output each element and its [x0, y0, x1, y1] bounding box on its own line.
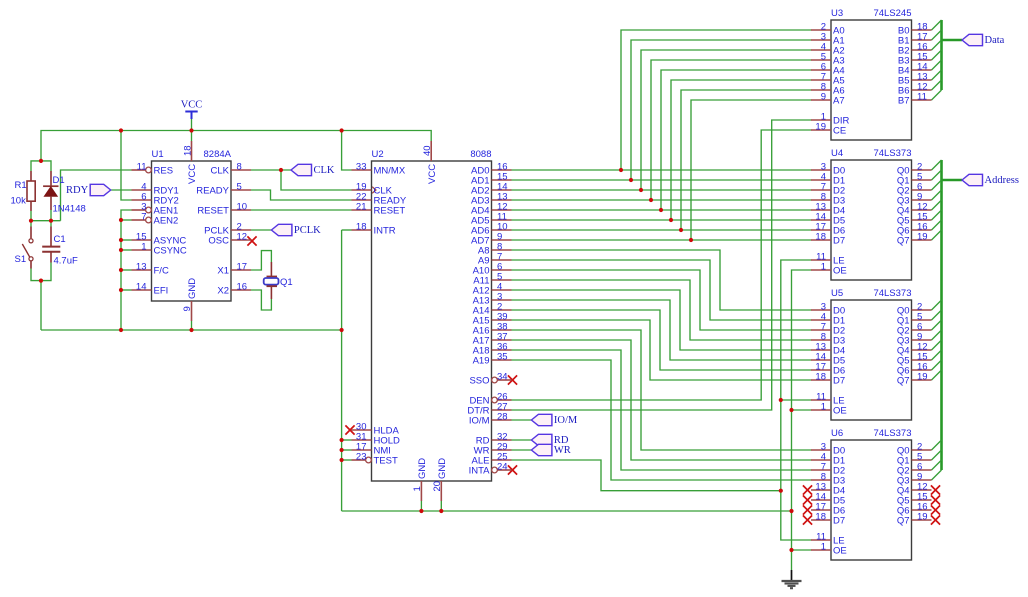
- svg-text:19: 19: [917, 372, 928, 383]
- wire U6.OE stub: [792, 549, 812, 551]
- svg-text:9: 9: [182, 306, 193, 311]
- wire GND stub to U2.HOLD: [342, 439, 352, 441]
- wire U5.Q1 bus entry: [932, 310, 942, 320]
- wire U5.Q3 bus entry: [932, 330, 942, 340]
- svg-text:VCC: VCC: [187, 164, 198, 184]
- U4 pin 4 D1: [811, 172, 845, 187]
- U4 pin 1 OE: [811, 262, 847, 277]
- svg-text:74LS373: 74LS373: [873, 288, 911, 299]
- svg-text:A19: A19: [473, 356, 490, 367]
- U2 pin 5 A11: [473, 272, 511, 287]
- wire U4.Q5 bus entry: [932, 210, 942, 220]
- svg-text:Q7: Q7: [897, 516, 910, 527]
- wire GND stub to U2.TEST: [342, 459, 352, 461]
- wire VCC to U1.RDY2: [121, 131, 132, 201]
- wire OE vertical (GND): [792, 270, 812, 570]
- U1 pin 1 CSYNC: [132, 242, 187, 257]
- svg-text:5: 5: [237, 182, 242, 193]
- U5 pin 17 D6: [811, 362, 845, 377]
- U2 pin 2 A14: [473, 302, 512, 317]
- U5 pin 16 Q6: [897, 362, 932, 377]
- U1 pin 11 RES: [132, 162, 174, 177]
- power flag VCC: [181, 100, 203, 120]
- svg-text:CSYNC: CSYNC: [154, 246, 187, 257]
- svg-text:D7: D7: [833, 236, 845, 247]
- U1 pin 8 CLK: [211, 162, 251, 177]
- U4 pin 14 D5: [811, 212, 845, 227]
- svg-text:18: 18: [815, 512, 826, 523]
- U2 pin 21 RESET: [352, 202, 406, 217]
- wire U5.Q5 bus entry: [932, 350, 942, 360]
- wire A14: U2 to U5.D6: [512, 310, 812, 370]
- wire AD0: U2 to U4.D0: [512, 169, 812, 171]
- wire DEN to U3.CE: [512, 130, 812, 400]
- wire U5.Q6 bus entry: [932, 360, 942, 370]
- wire U5.LE stub: [781, 399, 812, 401]
- junction AD4 branch: [659, 208, 663, 212]
- U3 pin 8 A6: [811, 82, 845, 97]
- svg-text:INTA: INTA: [469, 466, 491, 477]
- wire U2.GND20 stub: [440, 501, 442, 511]
- U5 pin 1 OE: [811, 402, 847, 417]
- U6 pin 18 D7: [811, 512, 845, 527]
- svg-text:Q7: Q7: [897, 236, 910, 247]
- wire U1.GND stub: [191, 321, 193, 330]
- U3 pin 11 B7: [898, 92, 932, 107]
- svg-text:35: 35: [497, 352, 508, 363]
- junction node D1/C1: [49, 219, 53, 223]
- wire GND stub to U2.NMI: [342, 449, 352, 451]
- junction ALE / U5.LE: [779, 398, 783, 402]
- U2 pin 7 A9: [478, 252, 512, 267]
- svg-text:CLK: CLK: [314, 165, 335, 176]
- wire AD1 branch to U3.A1: [631, 40, 812, 180]
- U2 pin 29 WR: [474, 442, 512, 457]
- svg-text:D1: D1: [53, 175, 65, 186]
- wire C1 top stub: [50, 221, 52, 227]
- wire GND vertical U2 side: [341, 230, 343, 511]
- U2 pin 32 RD: [476, 432, 512, 447]
- no-connect X U6.Q5 NC: [931, 495, 940, 504]
- svg-text:1: 1: [141, 242, 146, 253]
- svg-text:11: 11: [917, 92, 927, 103]
- svg-text:R1: R1: [15, 180, 27, 191]
- U6 pin 5 Q1: [897, 452, 932, 467]
- U5 pin 4 D1: [811, 312, 845, 327]
- U6 pin 4 D1: [811, 452, 845, 467]
- svg-text:Q1: Q1: [280, 277, 293, 288]
- wire B2 bus entry: [932, 40, 942, 50]
- U5 pin 5 Q1: [897, 312, 932, 327]
- U1 pin 7 AEN2: [132, 212, 179, 227]
- svg-text:OE: OE: [833, 266, 847, 277]
- U1 pin 17 X1: [217, 262, 251, 277]
- U4 pin 19 Q7: [897, 232, 932, 247]
- no-connect X U2.HLDA: [345, 425, 354, 434]
- wire U6.Q0 bus entry: [932, 440, 942, 450]
- junction GND / CSYNC: [119, 248, 123, 252]
- junction AD0 branch: [619, 168, 623, 172]
- svg-text:74LS373: 74LS373: [873, 428, 911, 439]
- junction GND / U2 pin20: [439, 509, 443, 513]
- junction AD6 branch: [679, 228, 683, 232]
- junction GND / U6.OE: [789, 548, 793, 552]
- wire U4.Q3 bus entry: [932, 190, 942, 200]
- junction AD2 branch: [639, 188, 643, 192]
- svg-text:VCC: VCC: [181, 100, 203, 111]
- svg-text:12: 12: [237, 232, 248, 243]
- U6 pin 12 Q4: [897, 482, 932, 497]
- svg-text:1: 1: [821, 542, 826, 553]
- junction GND vertical / GND rail: [119, 328, 123, 332]
- U3 pin 6 A4: [811, 62, 845, 77]
- svg-text:OSC: OSC: [208, 236, 229, 247]
- svg-text:S1: S1: [15, 254, 27, 265]
- resistor R1: [27, 171, 35, 211]
- svg-text:40: 40: [422, 145, 433, 156]
- U4 pin 12 Q4: [897, 202, 932, 217]
- svg-text:10k: 10k: [11, 196, 27, 207]
- svg-text:READY: READY: [196, 186, 229, 197]
- U6 pin 17 D6: [811, 502, 845, 517]
- svg-text:U6: U6: [831, 428, 843, 439]
- no-connect X U2.INTA: [508, 465, 517, 474]
- IC U6 74LS373: [29, 128, 940, 560]
- U3 pin 7 A5: [811, 72, 845, 87]
- wire IO/M to flag: [512, 419, 532, 421]
- U4 pin 5 Q1: [897, 172, 932, 187]
- svg-text:1: 1: [412, 486, 423, 491]
- U2 pin 37 A17: [473, 332, 512, 347]
- U3 pin 12 B6: [898, 82, 932, 97]
- U1 pin 13 F/C: [132, 262, 169, 277]
- wire U5.Q0 bus entry: [932, 300, 942, 310]
- svg-text:D7: D7: [833, 516, 845, 527]
- wire U5.Q4 bus entry: [932, 340, 942, 350]
- U2 pin 8 A8: [478, 242, 512, 257]
- svg-text:CLK: CLK: [211, 166, 230, 177]
- U4 pin 2 Q0: [897, 162, 932, 177]
- wire U4.Q7 bus entry: [932, 230, 942, 240]
- U1 pin 16 X2: [217, 282, 251, 297]
- U2 pin 12 AD4: [471, 202, 511, 217]
- svg-text:B7: B7: [898, 96, 910, 107]
- junction GND / AEN2: [119, 218, 123, 222]
- U4 pin 16 Q6: [897, 222, 932, 237]
- junction GND / U2.HOLD: [340, 438, 344, 442]
- U3 pin 16 B2: [898, 42, 932, 57]
- svg-text:U3: U3: [831, 8, 843, 19]
- U6 pin 8 D3: [811, 472, 845, 487]
- wire AD1: U2 to U4.D1: [512, 179, 812, 181]
- U5 pin 11 LE: [811, 392, 845, 407]
- U2 pin 16 AD0: [471, 162, 511, 177]
- U2 pin 25 ALE: [472, 452, 512, 467]
- svg-text:18: 18: [815, 232, 826, 243]
- wire AD7 branch to U3.A7: [691, 100, 812, 240]
- wire GND rail: [41, 329, 342, 331]
- U5 pin 13 D4: [811, 342, 845, 357]
- U2 pin 28 IO/M: [469, 412, 512, 427]
- wire AD6: U2 to U4.D6: [512, 229, 812, 231]
- wire GND stub to U1.EFI: [121, 289, 132, 291]
- U4 pin 3 D0: [811, 162, 845, 177]
- svg-text:23: 23: [356, 452, 367, 463]
- svg-text:INTR: INTR: [374, 226, 396, 237]
- U4 pin 8 D3: [811, 192, 845, 207]
- svg-text:OE: OE: [833, 406, 847, 417]
- U3 pin 4 A2: [811, 42, 845, 57]
- U3 pin 19 CE: [811, 122, 846, 137]
- svg-text:D7: D7: [833, 376, 845, 387]
- svg-text:IO/M: IO/M: [554, 415, 578, 426]
- svg-text:EFI: EFI: [154, 286, 169, 297]
- U1 pin 5 READY: [196, 182, 251, 197]
- U5 pin 15 Q5: [897, 352, 932, 367]
- svg-text:20: 20: [432, 481, 443, 492]
- wire CLK to U2.CLK: [281, 170, 352, 190]
- U5 pin 9 Q3: [897, 332, 932, 347]
- diode D1 1N4148: [43, 171, 58, 210]
- U2 pin 14 AD2: [471, 182, 511, 197]
- svg-text:RES: RES: [154, 166, 174, 177]
- junction GND / U2 pin1: [419, 509, 423, 513]
- junction VCC rail / R1-D1 branch: [39, 159, 43, 163]
- no-connect X U6.D6 NC: [803, 505, 812, 514]
- U2 pin 6 A10: [473, 262, 512, 277]
- U3 pin 3 A1: [811, 32, 845, 47]
- svg-text:F/C: F/C: [154, 266, 169, 277]
- wire A16: U2 to U6.D0: [512, 330, 812, 450]
- junction GND / U2.TEST: [340, 458, 344, 462]
- U4 pin 13 D4: [811, 202, 845, 217]
- svg-text:7: 7: [141, 212, 146, 223]
- wire U5.OE stub: [792, 409, 812, 411]
- crystal Q1: [264, 262, 279, 299]
- junction GND / F/C: [119, 268, 123, 272]
- wire GND horizontal under U2: [342, 510, 792, 512]
- IC U5 74LS373: [29, 128, 940, 560]
- svg-text:24: 24: [497, 462, 508, 473]
- no-connect X U6.D4 NC: [803, 485, 812, 494]
- U5 pin 6 Q2: [897, 322, 932, 337]
- wire A13: U2 to U5.D5: [512, 300, 812, 360]
- wire A19: U2 to U6.D3: [512, 360, 812, 480]
- svg-text:19: 19: [815, 122, 826, 133]
- wire AD3 branch to U3.A3: [651, 60, 812, 200]
- svg-text:18: 18: [815, 372, 826, 383]
- U1 pin 3 AEN1: [132, 202, 179, 217]
- U5 pin 18 D7: [811, 372, 845, 387]
- svg-text:18: 18: [183, 145, 194, 156]
- svg-text:VCC: VCC: [427, 164, 438, 184]
- svg-text:U4: U4: [831, 148, 843, 159]
- U3 pin 18 B0: [898, 22, 932, 37]
- wire Data flag wire: [942, 39, 963, 42]
- svg-text:1: 1: [821, 262, 826, 273]
- U1 pin 14 EFI: [132, 282, 169, 297]
- svg-text:U5: U5: [831, 288, 843, 299]
- svg-text:RESET: RESET: [197, 206, 229, 217]
- svg-text:GND: GND: [437, 458, 448, 479]
- junction node R1/S1: [29, 219, 33, 223]
- U3 pin 14 B4: [898, 62, 932, 77]
- IC U4 74LS373: [29, 128, 940, 560]
- svg-text:Data: Data: [985, 35, 1005, 46]
- U5 pin 8 D3: [811, 332, 845, 347]
- U4 pin 18 D7: [811, 232, 845, 247]
- U5 pin 2 Q0: [897, 302, 932, 317]
- U6 pin 9 Q3: [897, 472, 932, 487]
- U6 pin 2 Q0: [897, 442, 932, 457]
- U3 pin 13 B5: [898, 72, 932, 87]
- U6 pin 15 Q5: [897, 492, 932, 507]
- junction ALE / LE vertical: [779, 489, 783, 493]
- wire A11: U2 to U5.D3: [512, 280, 812, 340]
- U4 pin 11 LE: [811, 252, 845, 267]
- svg-text:21: 21: [356, 202, 367, 213]
- wire AD7: U2 to U4.D7: [512, 239, 812, 241]
- junction AD1 branch: [629, 178, 633, 182]
- wire B6 bus entry: [932, 80, 942, 90]
- junction GND / EFI: [119, 288, 123, 292]
- wire X1 to Q1 top: [251, 251, 271, 270]
- U2 pin 33 MN/MX: [352, 162, 406, 177]
- svg-text:10: 10: [237, 202, 248, 213]
- wire U6.Q1 bus entry: [932, 450, 942, 460]
- wire U5.Q7 bus entry: [932, 370, 942, 380]
- svg-text:17: 17: [237, 262, 248, 273]
- svg-text:9: 9: [821, 92, 826, 103]
- wire LE vertical U4-U6: [781, 260, 812, 540]
- svg-text:8088: 8088: [470, 149, 491, 160]
- U3 pin 17 B1: [898, 32, 932, 47]
- U5 pin 14 D5: [811, 352, 845, 367]
- svg-text:GND: GND: [187, 278, 198, 299]
- U2 pin 3 A13: [473, 292, 512, 307]
- bus Data vertical: [940, 20, 943, 90]
- wire A18: U2 to U6.D2: [512, 350, 812, 470]
- U2 pin 23 TEST: [352, 452, 398, 467]
- no-connect X U6.Q6 NC: [931, 505, 940, 514]
- wire RC node to U1.RES: [61, 170, 132, 221]
- net flag WR: [531, 444, 570, 456]
- U2 pin 20 GND: [432, 458, 448, 501]
- svg-text:33: 33: [356, 162, 367, 173]
- svg-text:MN/MX: MN/MX: [374, 166, 406, 177]
- no-connect X U1.OSC: [247, 236, 256, 245]
- wire B0 bus entry: [932, 20, 942, 30]
- U1 pin 4 RDY1: [132, 182, 179, 197]
- U5 pin 7 D2: [811, 322, 845, 337]
- wire VCC symbol to rail: [191, 118, 193, 141]
- U2 pin 15 AD1: [471, 172, 511, 187]
- U4 pin 9 Q3: [897, 192, 932, 207]
- junction AD7 branch: [689, 238, 693, 242]
- svg-text:19: 19: [917, 232, 928, 243]
- capacitor C1 4.7uF: [42, 227, 60, 263]
- U6 pin 6 Q2: [897, 462, 932, 477]
- no-connect X U6.D7 NC: [803, 515, 812, 524]
- U3 pin 5 A3: [811, 52, 845, 67]
- junction VCC rail / MN-MX branch: [340, 128, 344, 132]
- no-connect X U2.SSO: [508, 375, 517, 384]
- wire B1 bus entry: [932, 30, 942, 40]
- svg-text:28: 28: [497, 412, 508, 423]
- U2 pin 26 DEN: [469, 392, 511, 407]
- U4 pin 15 Q5: [897, 212, 932, 227]
- U2 pin 35 A19: [473, 352, 512, 367]
- wire U4.Q6 bus entry: [932, 220, 942, 230]
- U2 pin 39 A15: [473, 312, 512, 327]
- wire Address flag wire: [942, 179, 963, 182]
- U2 pin 27 DT/R: [467, 402, 511, 417]
- wire GND stub to U1.ASYNC: [121, 239, 132, 241]
- svg-text:8284A: 8284A: [204, 149, 232, 160]
- wire VCC node to R1/D1: [31, 161, 51, 171]
- wire WR to flag: [512, 449, 532, 451]
- wire U6.Q3 bus entry: [932, 470, 942, 480]
- wire GND stub to U1.CSYNC: [121, 249, 132, 251]
- net flag CLK: [291, 164, 335, 176]
- wire U4.Q1 bus entry: [932, 170, 942, 180]
- svg-text:SSO: SSO: [469, 376, 489, 387]
- svg-text:C1: C1: [54, 234, 66, 245]
- wire A9: U2 to U5.D1: [512, 260, 812, 320]
- no-connect X U6.D5 NC: [803, 495, 812, 504]
- U2 pin 24 INTA: [469, 462, 512, 477]
- U5 pin 19 Q7: [897, 372, 932, 387]
- svg-text:U1: U1: [152, 149, 164, 160]
- U1 pin 2 PCLK: [204, 222, 251, 237]
- svg-text:74LS245: 74LS245: [873, 8, 911, 19]
- U1 pin 12 OSC: [208, 232, 251, 247]
- svg-text:X1: X1: [217, 266, 229, 277]
- U1 pin 15 ASYNC: [132, 232, 187, 247]
- U5 pin 12 Q4: [897, 342, 932, 357]
- wire U2.GND1 stub: [420, 501, 422, 511]
- U2 pin 31 HOLD: [352, 432, 401, 447]
- wire B7 bus entry: [932, 90, 942, 100]
- svg-text:RESET: RESET: [374, 206, 406, 217]
- wire B3 bus entry: [932, 50, 942, 60]
- junction GND horizontal / OE vertical: [789, 509, 793, 513]
- wire U2.INTR stub: [342, 229, 352, 231]
- net flag RD: [531, 434, 569, 446]
- U2 pin 4 A12: [473, 282, 512, 297]
- no-connect X U6.Q7 NC: [931, 515, 940, 524]
- wire RDY flag to U1.RDY1: [111, 189, 132, 191]
- wire AD3: U2 to U4.D3: [512, 199, 812, 201]
- U5 pin 3 D0: [811, 302, 845, 317]
- svg-text:TEST: TEST: [374, 456, 398, 467]
- wire AD0 branch to U3.A0: [621, 30, 812, 170]
- U2 pin 40 VCC: [422, 141, 438, 184]
- svg-text:A7: A7: [833, 96, 845, 107]
- junction GND / U5.OE: [789, 408, 793, 412]
- wire AD5: U2 to U4.D5: [512, 219, 812, 221]
- U2 pin 10 AD6: [471, 222, 511, 237]
- U1 pin 6 RDY2: [132, 192, 179, 207]
- svg-text:74LS373: 74LS373: [873, 148, 911, 159]
- svg-text:CE: CE: [833, 126, 846, 137]
- net flag PCLK: [271, 224, 321, 236]
- wire AD2: U2 to U4.D2: [512, 189, 812, 191]
- wire A12: U2 to U5.D4: [512, 290, 812, 350]
- svg-text:WR: WR: [554, 445, 571, 456]
- wire GND stub to U1.AEN2: [121, 219, 132, 221]
- svg-text:1: 1: [821, 402, 826, 413]
